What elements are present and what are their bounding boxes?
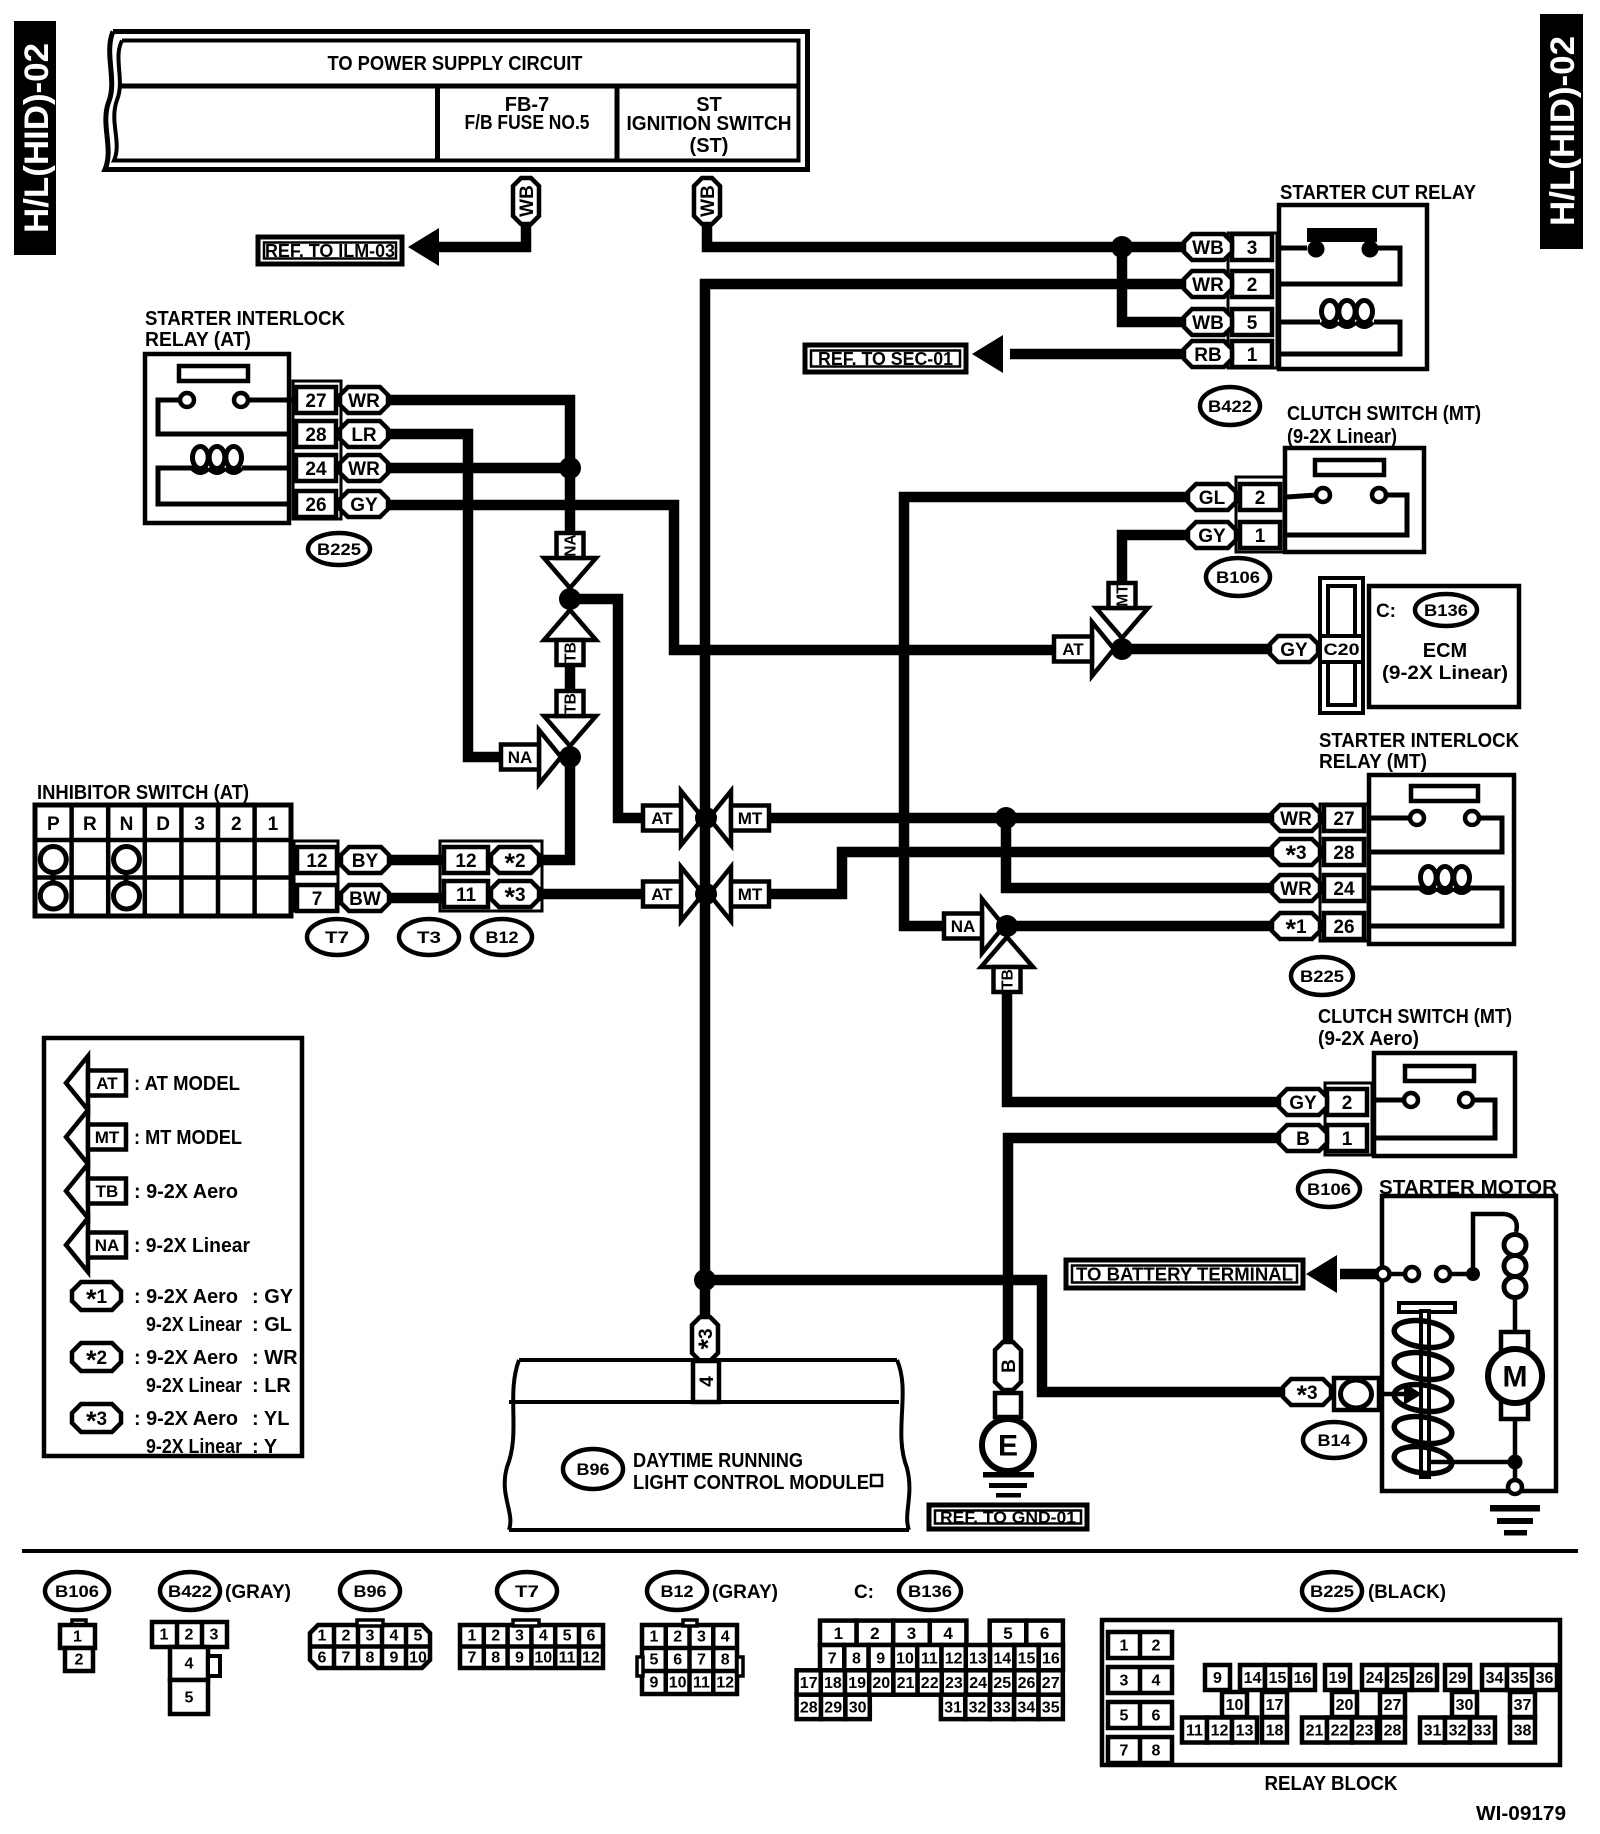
svg-text:LIGHT CONTROL MODULE: LIGHT CONTROL MODULE: [633, 1472, 869, 1494]
svg-text:9: 9: [649, 1675, 658, 1692]
svg-text:RELAY (AT): RELAY (AT): [145, 329, 251, 351]
svg-text:17: 17: [1266, 1697, 1284, 1714]
wire WB fuse FB-7 to REF ILM-03: [435, 222, 526, 247]
svg-text:9: 9: [515, 1650, 524, 1667]
pill WR pin2: [1184, 271, 1232, 297]
svg-text:3: 3: [366, 1628, 375, 1645]
svg-text:IGNITION SWITCH: IGNITION SWITCH: [627, 113, 792, 135]
svg-text:INHIBITOR SWITCH (AT): INHIBITOR SWITCH (AT): [37, 782, 249, 804]
node dot ECM AT/MT: [1111, 638, 1133, 660]
svg-text:37: 37: [1514, 1697, 1532, 1714]
svg-text:24: 24: [1366, 1670, 1384, 1687]
svg-text:26: 26: [1018, 1675, 1036, 1692]
node dot branch WR27/WR24: [995, 807, 1017, 829]
svg-text:B225: B225: [317, 540, 361, 559]
pin 2 clutch linear: [1240, 484, 1280, 510]
svg-text:12: 12: [945, 1650, 963, 1667]
ref box REF. TO ILM-03: [258, 237, 402, 264]
svg-text:TB: TB: [563, 642, 580, 663]
svg-text:3: 3: [210, 1627, 219, 1644]
pill LR pin28 AT: [340, 421, 388, 447]
connector label B12: [472, 919, 532, 955]
svg-text:8: 8: [721, 1652, 730, 1669]
switch clutch MT aero box: [1374, 1053, 1515, 1156]
node dot AT/MT pair1: [695, 807, 717, 829]
pin 24 interlock AT: [296, 455, 336, 481]
svg-text:DAYTIME RUNNING: DAYTIME RUNNING: [633, 1450, 803, 1472]
svg-text:18: 18: [824, 1675, 842, 1692]
interlock MT coil: [1371, 867, 1502, 927]
connector label B12 index: [647, 1572, 778, 1610]
wire WB from ignition switch ST to starter cut relay pin 3: [707, 222, 1184, 247]
svg-text:4: 4: [721, 1629, 730, 1646]
svg-text:H/L(HID)-02: H/L(HID)-02: [18, 43, 56, 233]
wire branch to starter cut relay pin 5: [1122, 247, 1184, 322]
arrow NA pointing down at node A: [544, 533, 596, 588]
pill GY clutch aero pin2: [1279, 1089, 1327, 1115]
svg-text:B136: B136: [908, 1582, 952, 1601]
connector B106 pin diagram: [60, 1620, 95, 1671]
svg-text:12: 12: [582, 1650, 600, 1667]
svg-text:1: 1: [1247, 345, 1258, 366]
svg-text:29: 29: [824, 1700, 842, 1717]
svg-text:NA: NA: [951, 917, 976, 936]
clutch MT linear contact: [1287, 460, 1407, 535]
starter cut relay pin bracket: [1228, 233, 1277, 368]
label WI-09179: [1476, 1803, 1566, 1825]
svg-text:2: 2: [342, 1628, 351, 1645]
svg-text:C20: C20: [1324, 640, 1360, 659]
svg-text:LR: LR: [351, 425, 377, 446]
connector label T7 index: [497, 1572, 557, 1610]
pin 28 interlock MT: [1324, 839, 1364, 865]
clutch MT aero contact: [1376, 1066, 1495, 1138]
wire TB arrow to clutch switch aero GY pin2: [1007, 991, 1279, 1102]
pin 11 B12: [444, 881, 488, 907]
pill B ground wire: [995, 1342, 1021, 1390]
svg-text:GY: GY: [1280, 640, 1308, 661]
svg-text:2: 2: [185, 1627, 194, 1644]
svg-text:8: 8: [1152, 1743, 1161, 1760]
wire GL clutch switch linear pin2 to MT arrow pair1 / NA arrow: [904, 497, 1188, 926]
svg-text:20: 20: [872, 1675, 890, 1692]
wire LR pin28 interlock relay AT to NA arrow: [388, 434, 500, 757]
svg-text:TB: TB: [96, 1182, 119, 1201]
svg-text:24: 24: [969, 1675, 987, 1692]
inhibitor switch table: [35, 805, 291, 916]
connector label B225 left: [308, 533, 370, 565]
pill WB pin3: [1184, 234, 1232, 260]
svg-text:4: 4: [697, 1376, 718, 1387]
svg-text:34: 34: [1486, 1670, 1504, 1687]
svg-text:B12: B12: [486, 928, 519, 947]
label INHIBITOR SWITCH (AT): [37, 782, 249, 804]
svg-text:(ST): (ST): [690, 135, 729, 157]
wire node C down to connector B12 pin12: [538, 757, 570, 860]
svg-text:1: 1: [1255, 526, 1266, 547]
svg-text:3: 3: [515, 1628, 524, 1645]
svg-text:5: 5: [563, 1628, 572, 1645]
pill GY pin1: [1188, 522, 1236, 548]
svg-text:33: 33: [993, 1700, 1011, 1717]
svg-text:NA: NA: [95, 1236, 120, 1255]
svg-text:H/L(HID)-02: H/L(HID)-02: [1544, 36, 1582, 226]
svg-text:28: 28: [1333, 843, 1354, 864]
arrowhead to battery terminal: [1306, 1255, 1337, 1293]
svg-text:B12: B12: [661, 1582, 694, 1601]
svg-text:WR: WR: [348, 391, 380, 412]
svg-text:3: 3: [1247, 238, 1258, 259]
svg-text:16: 16: [1294, 1670, 1312, 1687]
svg-text:35: 35: [1042, 1700, 1060, 1717]
svg-text:M: M: [1503, 1361, 1528, 1394]
svg-text:CLUTCH SWITCH (MT): CLUTCH SWITCH (MT): [1287, 403, 1481, 425]
svg-text:1: 1: [649, 1629, 658, 1646]
pin 1 clutch aero: [1327, 1125, 1367, 1151]
svg-text:B106: B106: [1216, 568, 1260, 587]
arrow TB pointing down above node C: [544, 691, 596, 746]
svg-text:10: 10: [896, 1650, 914, 1667]
svg-text:NA: NA: [563, 534, 580, 556]
wire GY pin26 interlock relay AT to ECM AT arrow: [388, 505, 1057, 650]
arrow NA pointing right at node E: [944, 899, 1004, 953]
svg-text:2: 2: [75, 1652, 84, 1669]
node dot above NA right arrow: [559, 746, 581, 768]
svg-text:NA: NA: [508, 748, 533, 767]
svg-text:AT: AT: [96, 1074, 118, 1093]
svg-text:: GL: : GL: [252, 1314, 292, 1336]
svg-text:27: 27: [1042, 1675, 1060, 1692]
connector pill WB below fuse FB-7: [513, 178, 539, 224]
svg-text:B106: B106: [1307, 1180, 1351, 1199]
svg-text:C:: C:: [1376, 601, 1396, 622]
connector label B96 DRL: [563, 1449, 623, 1489]
svg-text:STARTER INTERLOCK: STARTER INTERLOCK: [145, 308, 346, 330]
pill RB pin1: [1184, 341, 1232, 367]
svg-text:7: 7: [467, 1650, 476, 1667]
page banner left H/L(HID)-02: [14, 21, 56, 255]
svg-text:15: 15: [1018, 1650, 1036, 1667]
svg-text:(GRAY): (GRAY): [225, 1582, 291, 1603]
label DAYTIME RUNNING LIGHT CONTROL MODULE: [633, 1450, 882, 1494]
wire *2 T3/B12 pin12: [491, 855, 538, 866]
svg-text:: 9-2X Aero: : 9-2X Aero: [134, 1286, 238, 1308]
svg-text:28: 28: [1384, 1723, 1402, 1740]
svg-text:B136: B136: [1424, 601, 1468, 620]
svg-text:8: 8: [852, 1650, 861, 1667]
svg-text:: 9-2X Linear: : 9-2X Linear: [134, 1235, 250, 1257]
pill *3 to DRL module: [692, 1317, 723, 1361]
starter cut relay contact: [1281, 228, 1400, 284]
wire central node down to DRL module pin 4: [700, 1280, 711, 1317]
svg-text:TO BATTERY TERMINAL: TO BATTERY TERMINAL: [1076, 1264, 1293, 1284]
svg-text:MT: MT: [95, 1128, 120, 1147]
svg-text:7: 7: [697, 1652, 706, 1669]
svg-text:1: 1: [160, 1627, 169, 1644]
svg-text:26: 26: [1416, 1670, 1434, 1687]
svg-text:12: 12: [455, 851, 476, 872]
inhibitor switch contacts P: [40, 847, 66, 910]
svg-text:2: 2: [231, 814, 242, 835]
svg-text:WR: WR: [348, 459, 380, 480]
svg-text:11: 11: [559, 1650, 576, 1667]
svg-text:(9-2X Linear): (9-2X Linear): [1287, 426, 1397, 448]
label STARTER CUT RELAY: [1280, 182, 1477, 204]
svg-text:33: 33: [1474, 1723, 1492, 1740]
svg-text:4: 4: [539, 1628, 548, 1645]
connector T7 pin diagram: [460, 1620, 603, 1668]
svg-text:RELAY (MT): RELAY (MT): [1319, 751, 1427, 773]
svg-text:16: 16: [1042, 1650, 1060, 1667]
svg-text:3: 3: [194, 814, 205, 835]
connector label B106 aero: [1298, 1171, 1360, 1207]
connector label B225 index: [1302, 1572, 1446, 1610]
arrow TB pointing up below node B: [544, 610, 596, 665]
wire MT pair2 to relay MT pin28: [769, 852, 1272, 894]
svg-text:B225: B225: [1310, 1582, 1354, 1601]
svg-text:: MT MODEL: : MT MODEL: [134, 1127, 242, 1149]
label STARTER MOTOR: [1379, 1177, 1558, 1199]
ground E symbol: [982, 1419, 1034, 1471]
inhibitor switch contacts N: [114, 847, 140, 910]
svg-text:7: 7: [828, 1650, 837, 1667]
svg-text:28: 28: [305, 425, 326, 446]
svg-text:(9-2X Linear): (9-2X Linear): [1382, 663, 1508, 684]
svg-text:WB: WB: [1192, 313, 1224, 334]
wire RB starter cut relay pin 1 to REF SEC-01: [1010, 349, 1184, 360]
svg-text:R: R: [83, 814, 97, 835]
relay starter interlock AT box: [145, 354, 289, 523]
svg-text:9-2X Linear: 9-2X Linear: [146, 1375, 242, 1397]
svg-text:AT: AT: [651, 885, 673, 904]
svg-text:B106: B106: [55, 1582, 99, 1601]
ground symbol hatches: [983, 1472, 1034, 1498]
svg-text:MT: MT: [738, 809, 763, 828]
arrow AT pair1: [643, 791, 703, 845]
svg-text:: LR: : LR: [252, 1375, 291, 1397]
svg-text:9-2X Linear: 9-2X Linear: [146, 1314, 242, 1336]
arrowhead to REF ILM-03: [408, 228, 439, 266]
svg-text:11: 11: [693, 1675, 710, 1692]
label CLUTCH SWITCH (MT) 9-2X Aero: [1318, 1006, 1512, 1050]
legend pill *3: [72, 1404, 289, 1458]
svg-text:: WR: : WR: [252, 1347, 298, 1369]
svg-text:12: 12: [1211, 1723, 1229, 1740]
pin 5 starter cut relay: [1232, 309, 1272, 335]
interlock AT pin bracket: [293, 381, 341, 519]
connector label T3: [399, 919, 459, 955]
svg-text:3: 3: [907, 1624, 916, 1643]
svg-text:32: 32: [969, 1700, 987, 1717]
svg-text:: AT MODEL: : AT MODEL: [134, 1073, 240, 1095]
svg-text:24: 24: [1333, 879, 1355, 900]
clutch aero pin bracket: [1325, 1083, 1372, 1155]
node dot WB branch: [1111, 236, 1133, 258]
svg-text:2: 2: [1247, 275, 1258, 296]
svg-text:5: 5: [1247, 313, 1258, 334]
connector B422 pin diagram: [152, 1622, 227, 1714]
svg-text:32: 32: [1449, 1723, 1467, 1740]
svg-text:2: 2: [1255, 488, 1266, 509]
svg-text:15: 15: [1269, 1670, 1287, 1687]
wire BY inhibitor to T3: [389, 855, 444, 866]
svg-text:STARTER CUT RELAY: STARTER CUT RELAY: [1280, 182, 1477, 204]
pin 27 interlock MT: [1324, 805, 1364, 831]
svg-text:11: 11: [921, 1650, 938, 1667]
pill *3 B12 pin11: [491, 881, 539, 912]
pin 12 inhibitor: [297, 847, 337, 873]
legend arrow AT: [66, 1056, 240, 1110]
svg-text:B: B: [1296, 1129, 1310, 1150]
starter cut relay coil: [1281, 301, 1400, 355]
label STARTER INTERLOCK RELAY (AT): [145, 308, 346, 351]
svg-text:28: 28: [800, 1700, 818, 1717]
legend pill *1: [72, 1282, 294, 1336]
svg-text:14: 14: [1244, 1670, 1262, 1687]
relay starter interlock MT box: [1369, 775, 1514, 944]
svg-text:AT: AT: [651, 809, 673, 828]
svg-text:WR: WR: [1280, 809, 1312, 830]
svg-text:7: 7: [1120, 1743, 1129, 1760]
svg-text:WR: WR: [1192, 275, 1224, 296]
svg-text:29: 29: [1449, 1670, 1467, 1687]
svg-text:WB: WB: [1192, 238, 1224, 259]
svg-text:8: 8: [366, 1650, 375, 1667]
ref box TO BATTERY TERMINAL: [1066, 1260, 1303, 1288]
ref box REF. TO SEC-01: [805, 345, 966, 372]
pill WR pin27 MT: [1272, 805, 1320, 831]
svg-text:6: 6: [318, 1650, 327, 1667]
node dot below NA arrow: [559, 588, 581, 610]
power supply circuit box: [105, 32, 808, 170]
arrow MT pair2: [709, 867, 769, 921]
svg-text:11: 11: [1186, 1723, 1203, 1740]
svg-text:WB: WB: [698, 185, 719, 217]
svg-text:2: 2: [491, 1628, 500, 1645]
node dot central to starter motor: [694, 1269, 716, 1291]
svg-text:5: 5: [649, 1652, 658, 1669]
pill GY pin26 AT: [340, 491, 388, 517]
pill WR pin24 MT: [1272, 875, 1320, 901]
svg-text:1: 1: [834, 1624, 843, 1643]
svg-text:6: 6: [1040, 1624, 1049, 1643]
svg-text:10: 10: [669, 1675, 687, 1692]
connector label B14: [1303, 1422, 1365, 1458]
ref box REF. TO GND-01: [929, 1505, 1087, 1529]
svg-text:21: 21: [897, 1675, 915, 1692]
svg-text:B14: B14: [1318, 1431, 1352, 1450]
page banner right H/L(HID)-02: [1540, 14, 1583, 249]
legend box: [44, 1038, 302, 1456]
svg-text:B96: B96: [577, 1460, 610, 1479]
connector label T7: [307, 919, 367, 955]
svg-text:STARTER INTERLOCK: STARTER INTERLOCK: [1319, 730, 1520, 752]
svg-text:D: D: [156, 814, 170, 835]
pill *3 B14: [1283, 1379, 1331, 1410]
connector label B422: [1200, 387, 1260, 425]
label RELAY BLOCK: [1265, 1773, 1399, 1795]
svg-text:23: 23: [1356, 1723, 1374, 1740]
interlock MT pin bracket: [1320, 804, 1368, 941]
svg-text:ECM: ECM: [1423, 640, 1467, 662]
pill GY ECM C20: [1270, 636, 1318, 662]
legend arrow NA: [66, 1218, 250, 1272]
wire central node to B14 *3 starter motor: [705, 1280, 1283, 1392]
wire *3 B12 pin11 to AT arrow pair2: [538, 889, 644, 900]
switch clutch MT linear box: [1285, 448, 1424, 552]
pin 24 interlock MT: [1324, 875, 1364, 901]
svg-text:T7: T7: [515, 1582, 539, 1601]
svg-text:27: 27: [1333, 809, 1354, 830]
pill BW pin7: [341, 885, 389, 911]
svg-text:23: 23: [945, 1675, 963, 1692]
node dot NA/TB right: [996, 915, 1018, 937]
svg-text:26: 26: [1333, 917, 1354, 938]
svg-text:TB: TB: [1000, 969, 1017, 990]
svg-text:24: 24: [305, 459, 327, 480]
svg-text:5: 5: [1120, 1708, 1129, 1725]
svg-text:10: 10: [1226, 1697, 1244, 1714]
svg-text:AT: AT: [1062, 640, 1084, 659]
ground connector box: [995, 1393, 1021, 1417]
pin 2 clutch aero: [1327, 1089, 1367, 1115]
wire TB-TB link: [565, 664, 576, 690]
legend arrow TB: [66, 1164, 238, 1218]
pin 7 inhibitor: [297, 885, 337, 911]
svg-text:25: 25: [1391, 1670, 1409, 1687]
svg-text:B422: B422: [168, 1582, 212, 1601]
svg-text:6: 6: [1152, 1708, 1161, 1725]
svg-text:4: 4: [390, 1628, 399, 1645]
ECM box: [1369, 586, 1519, 707]
svg-text:27: 27: [1384, 1697, 1402, 1714]
svg-text:WB: WB: [517, 185, 538, 217]
svg-text:B225: B225: [1300, 967, 1344, 986]
svg-text:8: 8: [491, 1650, 500, 1667]
pin 26 interlock AT: [296, 491, 336, 517]
label STARTER INTERLOCK RELAY (MT): [1319, 730, 1520, 773]
svg-text:31: 31: [944, 1700, 962, 1717]
pin 1 clutch linear: [1240, 522, 1280, 548]
relay starter cut relay box: [1279, 205, 1427, 369]
wire node A to NA arrow: [565, 468, 576, 534]
pin 2 starter cut relay: [1232, 271, 1272, 297]
wire GY clutch switch linear pin1 to MT arrow at ECM: [1122, 535, 1188, 581]
svg-text:E: E: [998, 1430, 1018, 1463]
wire WR pin24 interlock relay AT: [388, 463, 570, 474]
svg-text:5: 5: [414, 1628, 423, 1645]
svg-text:1: 1: [1120, 1638, 1129, 1655]
svg-text:TO POWER SUPPLY CIRCUIT: TO POWER SUPPLY CIRCUIT: [328, 53, 583, 75]
arrow AT at ECM wire: [1054, 622, 1114, 676]
svg-text:18: 18: [1266, 1723, 1284, 1740]
svg-text:1: 1: [467, 1628, 476, 1645]
pill WR pin24 AT: [340, 455, 388, 481]
connector bracket T3/B12: [440, 841, 542, 911]
svg-text:C:: C:: [854, 1582, 874, 1603]
svg-text:20: 20: [1336, 1697, 1354, 1714]
svg-text:(BLACK): (BLACK): [1368, 1582, 1446, 1603]
clutch linear pin bracket: [1236, 477, 1284, 552]
connector B96 pin diagram: [310, 1620, 430, 1668]
svg-text:30: 30: [849, 1700, 867, 1717]
interlock MT contact: [1371, 786, 1502, 852]
connector label B136 index: [854, 1572, 961, 1610]
svg-text:BW: BW: [349, 889, 381, 910]
svg-text:REF. TO SEC-01: REF. TO SEC-01: [818, 349, 953, 369]
svg-text:4: 4: [1152, 1673, 1161, 1690]
svg-text:6: 6: [673, 1652, 682, 1669]
